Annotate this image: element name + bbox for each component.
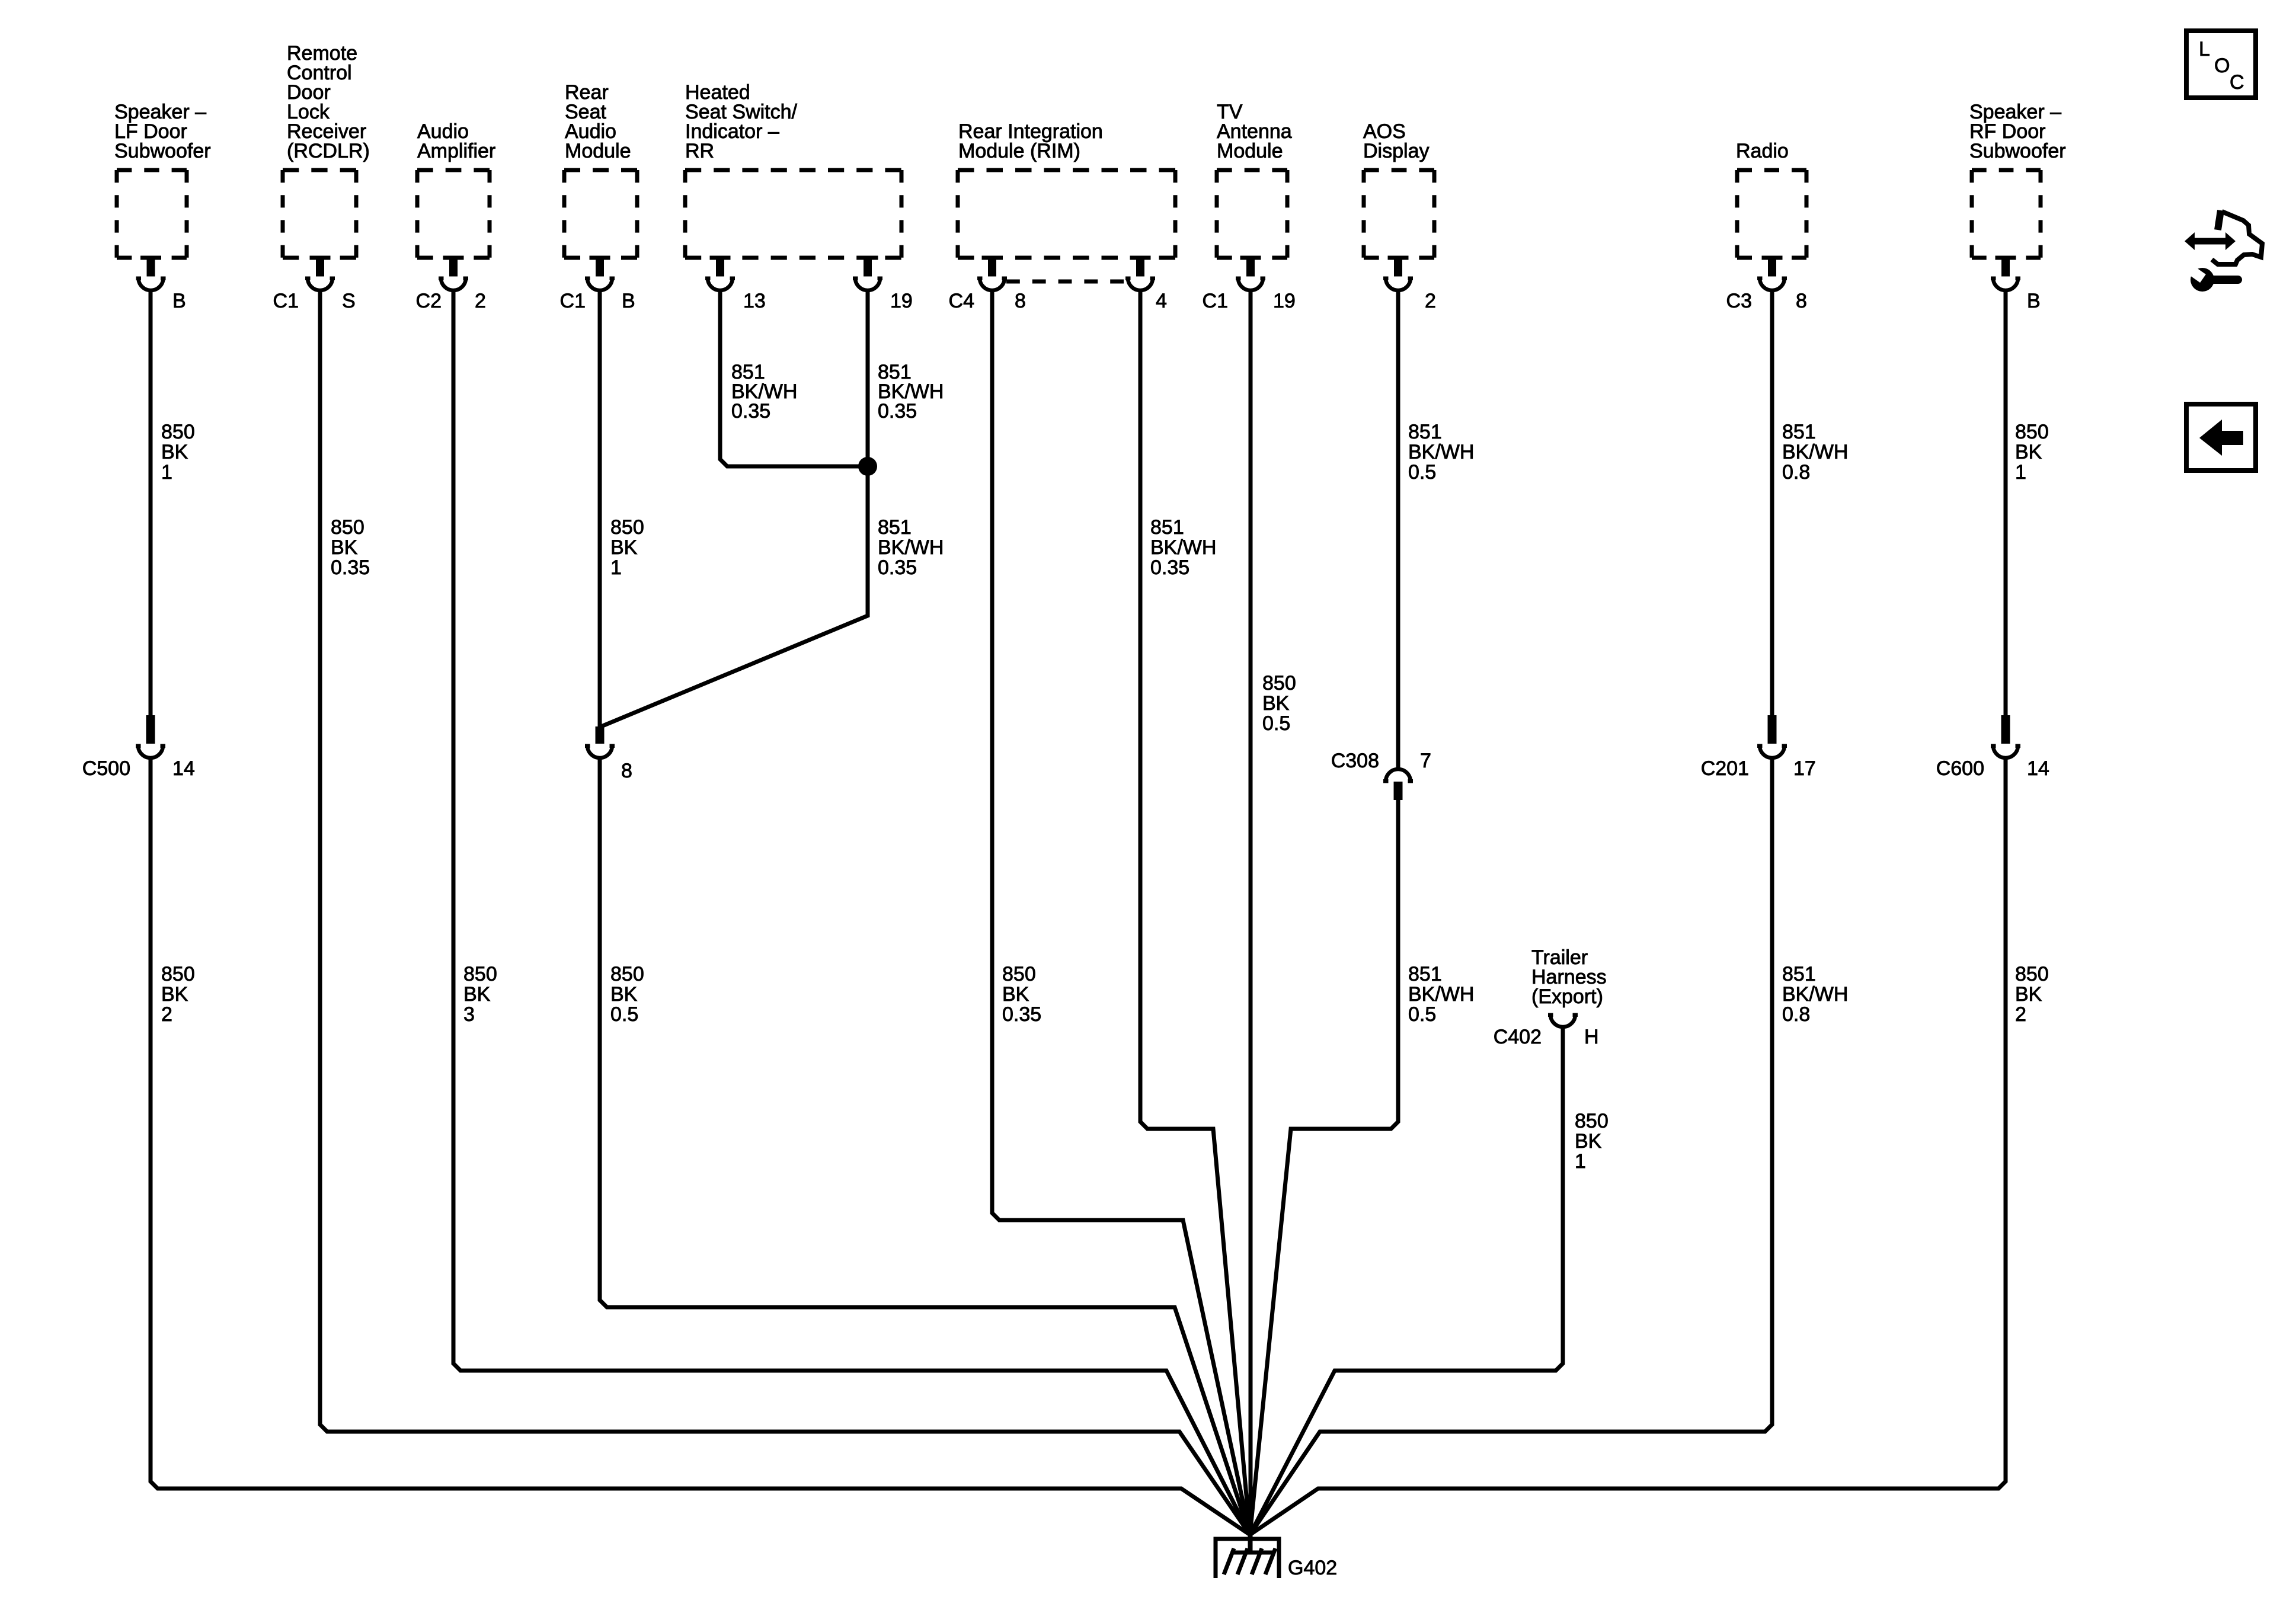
svg-text:1: 1 xyxy=(161,461,172,484)
wire label 851 BK/WH 0.8 (radio lower) xyxy=(1782,963,1848,1026)
wire label 851 BK/WH 0.5 (AOS upper) xyxy=(1408,421,1474,484)
pin label H (C402) xyxy=(1584,1026,1599,1048)
label: Trailer Harness (Export) xyxy=(1531,946,1607,1008)
svg-text:(Export): (Export) xyxy=(1531,985,1603,1008)
vehicle outline of power-flow icon xyxy=(2212,212,2262,264)
wire label 850 BK 2 (RF speaker) xyxy=(2015,963,2049,1026)
svg-text:BK: BK xyxy=(161,983,188,1006)
svg-text:0.8: 0.8 xyxy=(1782,1003,1810,1026)
wire 850 BK from in-line connector 8 to ground G402 xyxy=(600,756,1250,1535)
connector label C500 xyxy=(82,757,130,780)
connector label C3 xyxy=(1726,290,1752,312)
label: Rear Integration Module (RIM) xyxy=(958,120,1103,162)
wire label 851 BK/WH 0.35 (below junction) xyxy=(878,516,944,579)
in-line connector pin 8 (rear seat audio wire) xyxy=(585,726,615,748)
svg-text:850: 850 xyxy=(161,421,195,443)
svg-text:17: 17 xyxy=(1793,757,1816,780)
wire 850 BK from Trailer Harness C402 to ground G402 xyxy=(1250,1025,1563,1535)
svg-text:BK/WH: BK/WH xyxy=(1782,441,1848,463)
svg-text:BK: BK xyxy=(1262,692,1290,715)
wire label 850 BK 3 (audio amplifier) xyxy=(463,963,497,1026)
back-arrow glyph xyxy=(2199,420,2243,456)
svg-text:0.35: 0.35 xyxy=(731,400,770,422)
svg-text:Module: Module xyxy=(1217,140,1283,162)
svg-text:851: 851 xyxy=(1408,963,1442,985)
component box: Speaker - RF Door Subwoofer xyxy=(1972,170,2041,258)
svg-text:BK/WH: BK/WH xyxy=(1408,983,1474,1006)
svg-text:2: 2 xyxy=(161,1003,172,1026)
svg-text:1: 1 xyxy=(610,556,622,579)
svg-text:8: 8 xyxy=(1015,290,1026,312)
pin label 7 (C308) xyxy=(1420,750,1431,772)
svg-text:2: 2 xyxy=(2015,1003,2026,1026)
LOC letters xyxy=(2199,38,2244,94)
svg-text:BK: BK xyxy=(2015,983,2042,1006)
svg-text:C308: C308 xyxy=(1331,750,1379,772)
pin label 19 (TV antenna) xyxy=(1273,290,1296,312)
connector label C1 xyxy=(273,290,299,312)
pin label 8 (radio) xyxy=(1796,290,1807,312)
svg-text:C3: C3 xyxy=(1726,290,1752,312)
connector label C600 xyxy=(1936,757,1984,780)
connector pin 2 of AOS Display xyxy=(1383,256,1413,281)
connector pin 19 of heated seat switch xyxy=(853,256,882,281)
svg-text:B: B xyxy=(622,290,635,312)
svg-text:S: S xyxy=(342,290,356,312)
wire 850 BK from TV Antenna Module straight to ground G402 xyxy=(1249,289,1253,1553)
label: TV Antenna Module xyxy=(1217,101,1292,162)
svg-text:O: O xyxy=(2214,55,2230,77)
svg-text:0.35: 0.35 xyxy=(878,400,917,422)
ground G402 hatch strokes xyxy=(1224,1548,1275,1574)
wire label 851 BK/WH 0.35 (RIM pin 4) xyxy=(1150,516,1216,579)
svg-text:14: 14 xyxy=(2027,757,2049,780)
component box: AOS Display xyxy=(1364,170,1434,258)
pin label 4 (RIM) xyxy=(1156,290,1167,312)
connector label C1 (TV antenna) xyxy=(1203,290,1228,312)
svg-text:0.5: 0.5 xyxy=(610,1003,638,1026)
connector label C2 xyxy=(416,290,442,312)
svg-text:2: 2 xyxy=(475,290,486,312)
connector C402 pin H of Trailer Harness xyxy=(1548,1013,1578,1017)
svg-text:850: 850 xyxy=(610,963,644,985)
connector C2 pin 2 of Audio Amplifier xyxy=(439,256,468,281)
connector pin B of RF door subwoofer speaker xyxy=(1991,256,2020,281)
svg-text:C600: C600 xyxy=(1936,757,1984,780)
svg-text:1: 1 xyxy=(2015,461,2026,484)
svg-text:2: 2 xyxy=(1425,290,1436,312)
svg-text:0.35: 0.35 xyxy=(1002,1003,1041,1026)
wire 850 BK from C500 to ground G402 xyxy=(151,756,1250,1535)
wire 851 BK/WH from C201 to ground G402 xyxy=(1250,756,1772,1535)
wrench of power-flow icon xyxy=(2186,264,2242,292)
svg-text:3: 3 xyxy=(463,1003,475,1026)
svg-text:C2: C2 xyxy=(416,290,442,312)
svg-text:0.5: 0.5 xyxy=(1262,712,1290,735)
wire label 850 BK 0.35 (RIM C4-8) xyxy=(1002,963,1041,1026)
junction dot of 851 BK/WH wires xyxy=(858,457,877,476)
connector C1 pin 19 of TV Antenna Module xyxy=(1236,256,1265,281)
label: Radio xyxy=(1736,140,1789,162)
component box: Rear Integration Module (RIM) xyxy=(958,170,1175,258)
pin label B xyxy=(172,290,186,312)
svg-text:BK/WH: BK/WH xyxy=(1150,536,1216,559)
wire label 850 BK 0.35 (RCDLR) xyxy=(331,516,370,579)
svg-text:BK: BK xyxy=(2015,441,2042,463)
label: Speaker - LF Door Subwoofer xyxy=(114,101,211,162)
wire label 851 BK/WH 0.35 (pin 19) xyxy=(878,361,944,422)
connector label C1 (rear seat audio) xyxy=(560,290,586,312)
svg-text:851: 851 xyxy=(1408,421,1442,443)
svg-text:0.5: 0.5 xyxy=(1408,1003,1436,1026)
svg-text:Amplifier: Amplifier xyxy=(417,140,495,162)
pin label 14 (C600) xyxy=(2027,757,2049,780)
connector C4 pin 8 of RIM xyxy=(977,256,1007,281)
svg-text:19: 19 xyxy=(1273,290,1296,312)
wire 850 BK from RCDLR to ground G402 xyxy=(320,289,1250,1535)
connector label C402 xyxy=(1494,1026,1542,1048)
pin label B (RF speaker) xyxy=(2027,290,2041,312)
dashed connector face line between RIM pins xyxy=(1006,280,1124,284)
ground G402 bracket xyxy=(1214,1537,1281,1578)
svg-text:C402: C402 xyxy=(1494,1026,1542,1048)
in-line connector C500 pin 14 xyxy=(136,715,165,748)
svg-text:Module: Module xyxy=(565,140,631,162)
svg-text:RR: RR xyxy=(685,140,714,162)
svg-text:H: H xyxy=(1584,1026,1599,1048)
wire 851 BK/WH from RIM pin 4 to ground G402 xyxy=(1140,289,1250,1535)
in-line connector C201 pin 17 xyxy=(1757,715,1787,748)
wire label 850 BK 1 (LF speaker) xyxy=(161,421,195,484)
svg-text:850: 850 xyxy=(2015,421,2049,443)
wire label 851 BK/WH 0.35 (pin 13) xyxy=(731,361,797,422)
pin label 2 xyxy=(475,290,486,312)
wire label 850 BK 0.5 (TV antenna) xyxy=(1262,672,1296,735)
connector pin B of LF door subwoofer speaker xyxy=(136,256,166,281)
svg-text:1: 1 xyxy=(1575,1150,1586,1173)
label: Heated Seat Switch/Indicator - RR xyxy=(685,81,798,162)
svg-text:14: 14 xyxy=(172,757,195,780)
svg-text:C1: C1 xyxy=(1203,290,1228,312)
svg-text:7: 7 xyxy=(1420,750,1431,772)
svg-text:850: 850 xyxy=(2015,963,2049,985)
component box: TV Antenna Module xyxy=(1217,170,1287,258)
wire 850 BK from RF speaker to C600 xyxy=(2004,289,2008,715)
svg-text:BK: BK xyxy=(331,536,358,559)
pin label 8 (in-line) xyxy=(621,760,632,782)
wire 851 BK/WH from heated seat pin 19 through junction to in-line connector 8 xyxy=(600,289,868,727)
wire 850 BK from LF speaker to C500 xyxy=(149,289,153,715)
pin label 19 xyxy=(890,290,913,312)
svg-text:8: 8 xyxy=(1796,290,1807,312)
svg-text:19: 19 xyxy=(890,290,913,312)
label: Speaker - RF Door Subwoofer xyxy=(1969,101,2066,162)
connector label C308 xyxy=(1331,750,1379,772)
component box: Heated Seat Switch/Indicator - RR xyxy=(685,170,901,258)
component box: RCDLR xyxy=(283,170,356,258)
svg-text:850: 850 xyxy=(610,516,644,539)
svg-text:0.5: 0.5 xyxy=(1408,461,1436,484)
svg-text:851: 851 xyxy=(1150,516,1184,539)
svg-text:BK: BK xyxy=(161,441,188,463)
connector pin 13 of heated seat switch xyxy=(705,256,735,281)
label: AOS Display xyxy=(1363,120,1429,162)
label: Audio Amplifier xyxy=(417,120,495,162)
wire 851 BK/WH from AOS Display to C308 xyxy=(1396,289,1400,768)
svg-text:G402: G402 xyxy=(1288,1557,1337,1579)
svg-text:C: C xyxy=(2230,71,2244,94)
svg-text:C1: C1 xyxy=(560,290,586,312)
pin label 17 (C201) xyxy=(1793,757,1816,780)
svg-text:C4: C4 xyxy=(949,290,974,312)
wire label 850 BK 1 (rear seat audio) xyxy=(610,516,644,579)
wire label 850 BK 2 (LF speaker) xyxy=(161,963,195,1026)
svg-text:8: 8 xyxy=(621,760,632,782)
back-arrow reference box xyxy=(2186,404,2256,470)
wire 850 BK from Rear Seat Audio Module to in-line connector 8 xyxy=(598,289,602,727)
svg-text:Display: Display xyxy=(1363,140,1429,162)
svg-text:B: B xyxy=(172,290,186,312)
double-headed arrow of power-flow icon xyxy=(2185,232,2236,250)
svg-text:851: 851 xyxy=(1782,963,1816,985)
svg-text:BK: BK xyxy=(1002,983,1029,1006)
svg-text:L: L xyxy=(2199,38,2210,60)
vehicle icon ear stroke xyxy=(2218,210,2221,230)
pin label 13 xyxy=(743,290,766,312)
pin label 2 (AOS) xyxy=(1425,290,1436,312)
in-line connector C308 pin 7 xyxy=(1383,779,1413,800)
svg-text:13: 13 xyxy=(743,290,766,312)
component box: Audio Amplifier xyxy=(417,170,490,258)
pin label 14 (C500) xyxy=(172,757,195,780)
wire 850 BK from C600 to ground G402 xyxy=(1250,756,2006,1535)
ground G402 hatch bar xyxy=(1231,1551,1272,1555)
svg-text:850: 850 xyxy=(1002,963,1036,985)
wire label 851 BK/WH 0.5 (AOS lower) xyxy=(1408,963,1474,1026)
svg-text:850: 850 xyxy=(331,516,364,539)
pin label B (rear seat audio) xyxy=(622,290,635,312)
in-line connector C600 pin 14 xyxy=(1991,715,2020,748)
svg-text:Subwoofer: Subwoofer xyxy=(1969,140,2066,162)
svg-text:C201: C201 xyxy=(1701,757,1749,780)
pin label S xyxy=(342,290,356,312)
svg-text:4: 4 xyxy=(1156,290,1167,312)
wire label 851 BK/WH 0.8 (radio upper) xyxy=(1782,421,1848,484)
LOC reference box xyxy=(2186,31,2256,98)
wire 851 BK/WH from heated seat pin 13 to junction xyxy=(720,289,868,466)
connector C3 pin 8 of Radio xyxy=(1757,256,1787,281)
svg-text:C500: C500 xyxy=(82,757,130,780)
wire label 850 BK 0.5 (rear seat audio) xyxy=(610,963,644,1026)
svg-text:BK/WH: BK/WH xyxy=(1408,441,1474,463)
ground G402 stem xyxy=(1248,1532,1252,1553)
connector pin 4 of RIM xyxy=(1125,256,1155,281)
svg-text:0.8: 0.8 xyxy=(1782,461,1810,484)
svg-text:851: 851 xyxy=(1782,421,1816,443)
svg-text:0.35: 0.35 xyxy=(1150,556,1189,579)
svg-text:0.35: 0.35 xyxy=(878,556,917,579)
wire label 850 BK 1 (RF speaker) xyxy=(2015,421,2049,484)
wire 851 BK/WH from C308 to ground G402 xyxy=(1250,800,1398,1535)
label: Remote Control Door Lock Receiver (RCDLR) xyxy=(287,42,370,162)
svg-text:850: 850 xyxy=(1575,1110,1609,1132)
svg-text:BK: BK xyxy=(610,983,638,1006)
wire label 850 BK 1 (trailer harness) xyxy=(1575,1110,1609,1173)
svg-text:Module (RIM): Module (RIM) xyxy=(958,140,1080,162)
component box: Speaker - LF Door Subwoofer xyxy=(117,170,187,258)
svg-text:850: 850 xyxy=(1262,672,1296,694)
component box: Rear Seat Audio Module xyxy=(564,170,637,258)
svg-text:BK/WH: BK/WH xyxy=(878,536,944,559)
label: Rear Seat Audio Module xyxy=(565,81,631,162)
pin label 8 (RIM C4) xyxy=(1015,290,1026,312)
svg-text:BK: BK xyxy=(463,983,491,1006)
connector C1 pin S of RCDLR xyxy=(305,256,335,281)
svg-text:Radio: Radio xyxy=(1736,140,1789,162)
svg-text:B: B xyxy=(2027,290,2041,312)
svg-text:850: 850 xyxy=(463,963,497,985)
connector label C201 xyxy=(1701,757,1749,780)
svg-text:Subwoofer: Subwoofer xyxy=(114,140,211,162)
wire 851 BK/WH from Radio to C201 xyxy=(1770,289,1774,715)
svg-text:BK: BK xyxy=(610,536,638,559)
component box: Radio xyxy=(1737,170,1806,258)
connector label C4 xyxy=(949,290,974,312)
svg-text:(RCDLR): (RCDLR) xyxy=(287,140,370,162)
svg-text:C1: C1 xyxy=(273,290,299,312)
svg-text:850: 850 xyxy=(161,963,195,985)
svg-text:BK: BK xyxy=(1575,1130,1602,1153)
svg-text:0.35: 0.35 xyxy=(331,556,370,579)
connector C1 pin B of Rear Seat Audio Module xyxy=(585,256,615,281)
wire 850 BK from Audio Amplifier to ground G402 xyxy=(453,289,1250,1535)
svg-text:BK/WH: BK/WH xyxy=(1782,983,1848,1006)
wire 850 BK from RIM C4 pin 8 to ground G402 xyxy=(992,289,1250,1535)
svg-text:851: 851 xyxy=(878,516,912,539)
